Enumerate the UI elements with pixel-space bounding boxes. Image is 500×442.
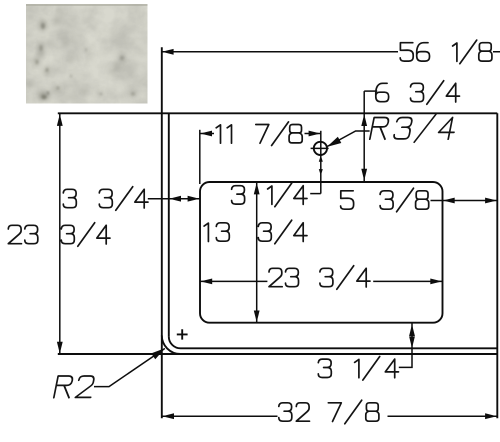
dimension 11 7/8 line: [200, 133, 321, 135]
dimension 23 3/4 sink text: [269, 266, 370, 290]
dimension 56 1/8 text: [400, 40, 492, 64]
dimension 56 1/8 arrow: [162, 49, 174, 55]
dimension 23 3/4 sink arrows: [200, 279, 212, 285]
dimension 13 3/4 vertical line: [256, 182, 258, 323]
countertop outer left edge + extension line (56 1/8 above, 32 7/8 below): [161, 47, 163, 418]
leader R2 tick and diagonal: [94, 349, 165, 387]
dimension 3 1/4 hole elbow tick: [310, 193, 321, 195]
dimension 23 3/4 left vertical line: [59, 113, 61, 354]
countertop outer bottom-left corner arc R2: [162, 335, 181, 354]
countertop inner edge-profile line, left: [168, 113, 170, 336]
faucet hole circle: [314, 142, 327, 155]
dimension 13 3/4 arrows: [254, 183, 260, 195]
dimension 3 3/4 line: [148, 198, 200, 200]
dimension 3 3/4 arrows: [169, 196, 181, 202]
leader R3/4 arrowhead: [325, 137, 341, 150]
dimension 5 3/8 line: [431, 200, 498, 202]
dimension 56 1/8 line: [162, 51, 500, 53]
dimension 3 3/4 text: [63, 187, 148, 211]
dimension 32 7/8 text: [279, 400, 379, 424]
dimension 6 3/4 arrows: [361, 114, 367, 126]
label R3/4 italic text: [369, 114, 457, 142]
leader R2 arrowhead: [151, 345, 167, 359]
dimension 3 1/4 bottom text: [318, 357, 398, 381]
faucet hole vertical center line / 3 1/4 dim line: [320, 131, 322, 194]
dimension 23 3/4 sink line: [200, 280, 443, 282]
countertop outer bottom edge + left extension: [58, 353, 498, 355]
dimension 3 1/4 hole arrows (small): [319, 155, 323, 162]
dimension 11 7/8 arrows: [200, 131, 212, 137]
dimension 3 1/4 bottom vertical line and elbow: [399, 324, 412, 368]
dimension 32 7/8 arrows: [162, 413, 174, 419]
dimension 11 7/8 text: [216, 122, 302, 146]
countertop right edge + extension below: [496, 113, 498, 418]
marble texture swatch: [26, 4, 148, 104]
leader R3/4 tick and diagonal: [327, 131, 369, 146]
countertop top edge + left extension to 23 3/4: [58, 112, 498, 114]
dimension 6 3/4 vertical line: [363, 91, 365, 181]
dimension 11 7/8 extension line: [199, 130, 201, 184]
dimension 3 1/4 hole text: [232, 183, 307, 207]
dimension 3 1/4 bottom arrows: [409, 324, 415, 336]
dimension 32 7/8 line: [162, 415, 498, 417]
sink cutout rounded rectangle: [200, 182, 443, 323]
faucet hole horizontal center tick: [311, 147, 329, 149]
plus mark near corner: [177, 329, 188, 339]
dimension 13 3/4 text: [204, 220, 307, 244]
countertop inner corner arc: [169, 337, 181, 349]
label R2 italic text: [54, 376, 95, 398]
dimension 6 3/4 elbow tick: [364, 90, 377, 92]
dimension 23 3/4 left arrows: [57, 114, 63, 126]
dimension 23 3/4 left text: [8, 223, 110, 247]
countertop inner edge-profile line, bottom: [181, 347, 498, 349]
dimension 5 3/8 text: [341, 188, 429, 212]
dimension 6 3/4 text: [376, 81, 460, 105]
dimension 5 3/8 arrows: [443, 198, 455, 204]
